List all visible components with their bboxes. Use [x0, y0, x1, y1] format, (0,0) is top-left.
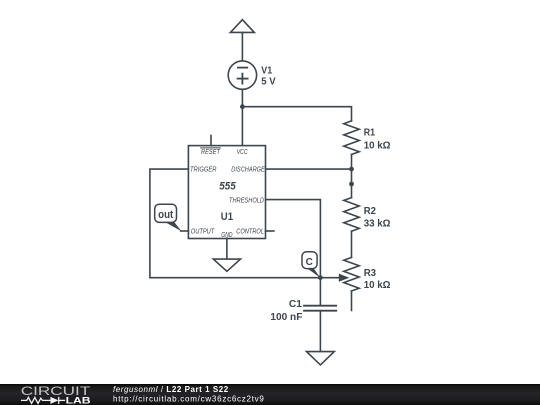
capacitor C1 [304, 306, 336, 311]
svg-text:555: 555 [219, 180, 236, 192]
wire R1 to discharge node [351, 155, 353, 170]
svg-text:33 kΩ: 33 kΩ [364, 217, 391, 229]
svg-text:TRIGGER: TRIGGER [190, 167, 217, 174]
CircuitLab logo resistor-diode glyph [21, 397, 65, 404]
wire TRIGGER loop to node C [150, 169, 321, 278]
svg-text:VCC: VCC [237, 149, 249, 156]
svg-text:THRESHOLD: THRESHOLD [229, 197, 264, 204]
svg-text:RESET: RESET [201, 149, 221, 156]
wire node to node [351, 169, 353, 184]
footer bar [0, 384, 540, 405]
potentiometer R3 body [344, 257, 359, 291]
junction node C [318, 275, 323, 280]
svg-text:U1: U1 [221, 211, 233, 223]
svg-text:5 V: 5 V [261, 76, 275, 88]
svg-text:C1: C1 [289, 298, 302, 310]
wire R2 to R3 [351, 231, 353, 257]
R3 bottom lead [351, 291, 353, 311]
wire DISCHARGE pin to right rail [266, 168, 352, 170]
junction node R2 top [349, 182, 354, 187]
svg-text:10 kΩ: 10 kΩ [364, 279, 391, 291]
svg-text:10 kΩ: 10 kΩ [364, 139, 391, 151]
svg-text:http://circuitlab.com/cw36zc6c: http://circuitlab.com/cw36zc6cz2tv9 [113, 394, 265, 403]
svg-text:V1: V1 [261, 64, 272, 76]
svg-text:fergusonml / L22 Part 1 S22: fergusonml / L22 Part 1 S22 [113, 385, 229, 394]
power flag +V [230, 20, 254, 33]
svg-text:out: out [158, 209, 173, 221]
wire top rail to R1 [242, 107, 351, 121]
wire power flag to V1 [241, 32, 243, 61]
svg-text:DISCHARGE: DISCHARGE [231, 167, 265, 174]
net flag C [302, 252, 320, 278]
wire C1 to ground [319, 311, 321, 352]
net flag out [155, 204, 182, 231]
wire node to R2 [351, 184, 353, 198]
R3 wiper arrow [320, 274, 349, 282]
svg-text:C: C [306, 257, 313, 268]
555 timer U1 box [188, 146, 265, 239]
voltage source V1 [228, 61, 256, 89]
GND pin stub [226, 238, 228, 259]
resistor R2 [344, 198, 359, 232]
svg-text:CONTROL: CONTROL [236, 229, 264, 236]
svg-text:R3: R3 [364, 267, 377, 279]
wire node C to C1 [319, 278, 321, 306]
svg-text:GND: GND [221, 232, 232, 239]
svg-text:100 nF: 100 nF [270, 311, 303, 323]
junction node V1/R1 rail [240, 104, 245, 109]
svg-text:R2: R2 [364, 205, 376, 217]
ground below C1 [307, 352, 335, 365]
svg-text:LAB: LAB [66, 395, 91, 405]
wire THRESHOLD pin to node C [266, 200, 321, 278]
svg-text:R1: R1 [364, 126, 375, 138]
svg-text:OUTPUT: OUTPUT [191, 229, 215, 236]
RESET pin stub [210, 136, 212, 146]
CONTROL pin stub [266, 230, 274, 232]
resistor R1 [344, 121, 359, 155]
OUTPUT pin stub [181, 230, 189, 232]
RESET overline [201, 147, 221, 149]
wire V1 to 555 VCC pin [241, 89, 243, 145]
junction node discharge [349, 167, 354, 172]
ground below 555 GND [213, 259, 240, 271]
